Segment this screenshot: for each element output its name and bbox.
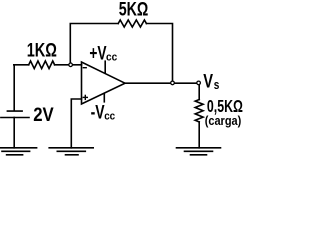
wire output: [125, 82, 197, 84]
node Vs output terminal: [197, 81, 201, 85]
label +Vcc: [89, 44, 117, 65]
ground middle: [49, 148, 93, 155]
op-amp +Vcc supply pin: [104, 61, 106, 72]
ground left: [0, 148, 37, 155]
node junction feedback-output: [171, 81, 175, 85]
wire feedback top: [70, 24, 172, 82]
svg-text:cc: cc: [104, 111, 115, 123]
battery V1 plates: [1, 111, 29, 148]
svg-text:2V: 2V: [33, 105, 54, 126]
resistor RL 0,5K zigzag: [195, 100, 203, 122]
svg-text:+V: +V: [89, 44, 106, 65]
svg-text:V: V: [203, 71, 213, 92]
svg-text:(carga): (carga): [205, 113, 242, 128]
label -Vcc: [91, 103, 116, 124]
svg-text:-V: -V: [91, 103, 105, 124]
resistor R2 5K feedback zigzag: [118, 20, 146, 27]
wire battery up: [13, 65, 15, 111]
svg-text:1KΩ: 1KΩ: [27, 40, 57, 61]
wire noninverting input to ground: [71, 99, 81, 148]
ground right: [177, 148, 221, 155]
label Vs: [203, 71, 219, 92]
op-amp plus input mark: [83, 95, 87, 99]
wire Vs node down to load: [198, 85, 200, 100]
wire R1 to node: [55, 64, 82, 66]
node inverting input: [69, 63, 73, 67]
wire load to ground: [198, 122, 200, 148]
svg-text:5KΩ: 5KΩ: [119, 0, 149, 21]
op-amp U1 triangle: [82, 62, 126, 104]
op-amp minus input mark: [83, 67, 86, 69]
op-amp -Vcc supply pin: [103, 93, 105, 101]
svg-text:s: s: [214, 77, 220, 92]
wire input left: [14, 64, 29, 66]
resistor R1 1K zigzag: [29, 61, 55, 69]
svg-text:cc: cc: [106, 51, 117, 63]
